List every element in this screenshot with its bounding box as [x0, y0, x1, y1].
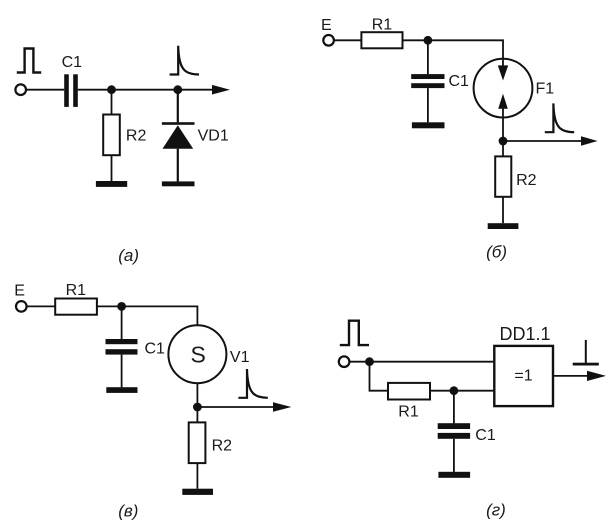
svg-text:C1: C1 [475, 427, 496, 444]
wire C1 to ground (g) [453, 439, 455, 472]
output arrow (a) [212, 85, 230, 95]
svg-text:R2: R2 [516, 172, 537, 189]
ground under C1 (b) [412, 122, 445, 128]
svg-text:R1: R1 [66, 282, 87, 299]
capacitor C1 (v) [106, 339, 138, 355]
input terminal (v) [16, 301, 27, 312]
svg-text:C1: C1 [62, 54, 83, 71]
output arrow (b) [581, 136, 598, 145]
diode VD1 triangle (a) [163, 125, 194, 148]
junction node VD1 (a) [173, 85, 182, 94]
svg-text:F1: F1 [536, 81, 555, 98]
wire C1 to ground (v) [121, 355, 123, 388]
output wire (g) [553, 375, 587, 377]
ground under R2 (a) [96, 181, 127, 187]
ground under R2 (v) [182, 489, 213, 495]
svg-text:C1: C1 [449, 73, 470, 90]
F1 top arrow (b) [498, 59, 508, 81]
wire C1 to ground (b) [427, 88, 429, 122]
wire R2 to ground (v) [196, 463, 198, 489]
wire node down to R1 (g) [370, 362, 389, 391]
ground under C1 (v) [106, 387, 137, 393]
ground under VD1 (a) [162, 181, 195, 186]
XOR gate DD1.1 box (g) [494, 346, 553, 406]
svg-text:S: S [191, 342, 206, 368]
junction node R2 (a) [107, 85, 116, 94]
wire node to VD1 (a) [177, 90, 179, 123]
top wire to DD1.1 (g) [370, 361, 495, 363]
svg-text:=1: =1 [514, 368, 532, 385]
wire node to R2 (b) [502, 141, 504, 156]
svg-text:E: E [321, 17, 332, 34]
wire node to C1 (b) [427, 40, 429, 74]
junction node input (g) [365, 357, 374, 366]
ground under R2 (b) [488, 223, 519, 229]
input terminal (g) [339, 356, 350, 367]
output spike waveform (a) [170, 46, 199, 75]
resistor R1 (g) [388, 383, 430, 400]
diode VD1 cathode bar (a) [162, 122, 195, 125]
junction node output (b) [499, 137, 508, 146]
junction node output (v) [193, 403, 202, 412]
wire terminal to R1 (b) [333, 39, 361, 41]
resistor R1 (b) [361, 32, 402, 48]
svg-text:V1: V1 [230, 349, 250, 366]
svg-text:DD1.1: DD1.1 [500, 324, 551, 344]
wire terminal to node (g) [349, 361, 370, 363]
capacitor C1 (b) [411, 74, 444, 88]
wire node to R2 (a) [111, 90, 113, 115]
wire R2 to ground (a) [111, 155, 113, 181]
ground under C1 (g) [438, 472, 470, 478]
output arrow (v) [273, 402, 291, 411]
wire node to C1 (g) [453, 391, 455, 424]
current source F1 circle (b) [474, 59, 533, 118]
svg-text:R1: R1 [372, 17, 393, 34]
svg-text:(г): (г) [486, 501, 506, 520]
svg-text:R2: R2 [126, 128, 147, 145]
capacitor C1 (g) [438, 423, 470, 439]
svg-text:E: E [14, 282, 25, 299]
wire R1 to F1 with corner (b) [403, 40, 504, 59]
resistor R2 (a) [103, 115, 120, 156]
wire node to C1 (v) [121, 306, 123, 339]
wire R1 to V1 with corner (v) [97, 306, 197, 325]
wire R2 to ground (b) [502, 197, 504, 223]
capacitor C1 (a) [64, 74, 78, 107]
input pulse symbol (a) [17, 49, 41, 73]
output wire (v) [197, 406, 273, 408]
junction node C1 (v) [117, 302, 126, 311]
wire terminal to R1 (v) [26, 305, 55, 307]
svg-text:(б): (б) [486, 243, 507, 262]
resistor R1 (v) [55, 299, 97, 315]
wire V1 to R2 (v) [196, 383, 198, 422]
F1 bottom arrow (b) [498, 94, 508, 141]
output wire (b) [503, 140, 582, 142]
wire VD1 to ground (a) [177, 149, 179, 182]
svg-text:VD1: VD1 [198, 127, 229, 144]
source V1 circle (v) [168, 325, 226, 383]
junction node C1 (g) [450, 386, 459, 395]
output spike waveform (v) [238, 369, 267, 398]
svg-text:R2: R2 [212, 438, 233, 455]
wire C1 to arrow (a) [78, 89, 213, 91]
output spike waveform (b) [545, 103, 574, 132]
input terminal (b) [323, 35, 334, 46]
input pulse symbol (g) [340, 321, 369, 345]
input terminal (a) [15, 84, 26, 95]
svg-text:(в): (в) [118, 502, 138, 521]
output arrow (g) [587, 371, 606, 381]
svg-text:(а): (а) [118, 246, 139, 265]
resistor R2 (b) [495, 156, 511, 196]
wire input to C1 (a) [25, 89, 64, 91]
junction node C1 (b) [424, 36, 433, 45]
svg-text:R1: R1 [398, 404, 419, 421]
svg-text:C1: C1 [145, 341, 166, 358]
output narrow pulse symbol (g) [573, 340, 599, 366]
resistor R2 (v) [189, 422, 206, 463]
wire R1 to DD1.1 (g) [430, 390, 494, 392]
